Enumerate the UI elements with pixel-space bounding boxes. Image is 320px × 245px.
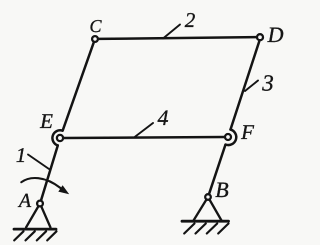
svg-text:B: B xyxy=(215,177,228,202)
svg-text:A: A xyxy=(17,190,32,212)
svg-text:F: F xyxy=(240,120,254,144)
eye of link at joint F xyxy=(226,130,237,146)
svg-text:E: E xyxy=(39,109,53,133)
revolute joint D xyxy=(257,34,263,40)
link 1 lower segment (crank A–E) xyxy=(41,146,58,200)
leader line of label 3 xyxy=(245,81,258,92)
revolute joint F xyxy=(225,134,231,140)
link 1 upper segment (E–C) xyxy=(63,43,94,131)
leader line of label 2 xyxy=(163,25,180,39)
rotation arrow of crank 1 xyxy=(21,178,69,194)
svg-text:D: D xyxy=(267,22,284,47)
link 3 (rocker D–F) xyxy=(231,42,260,129)
leader line of label 1 xyxy=(28,155,49,170)
svg-text:4: 4 xyxy=(157,105,168,130)
revolute joint C xyxy=(92,36,98,42)
svg-text:3: 3 xyxy=(261,71,274,96)
leader line of label 4 xyxy=(135,123,153,137)
eye of link at joint E xyxy=(52,130,62,145)
svg-text:2: 2 xyxy=(185,8,196,32)
link 4 (coupler E–F) xyxy=(64,137,225,138)
link 2 (coupler C–D) xyxy=(99,37,257,39)
revolute joint E xyxy=(57,135,63,141)
revolute joint B xyxy=(205,194,211,200)
svg-text:1: 1 xyxy=(16,143,27,167)
ground pivot frame at A xyxy=(14,204,57,241)
link F–B segment xyxy=(209,145,225,194)
svg-text:C: C xyxy=(90,16,103,36)
revolute joint A xyxy=(37,201,43,207)
ground pivot frame at B xyxy=(182,197,229,234)
